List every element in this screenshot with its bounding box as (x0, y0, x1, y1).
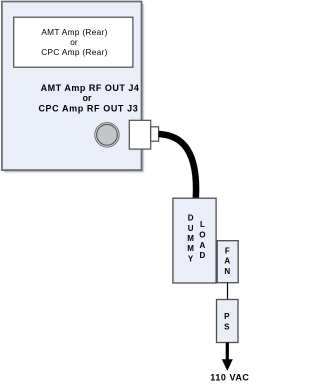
coax cable (159, 134, 196, 199)
svg-text:AMT Amp RF OUT J4: AMT Amp RF OUT J4 (41, 83, 140, 93)
wire fan to ps (227, 283, 229, 300)
amp label box (14, 17, 133, 67)
dummy load box (173, 198, 216, 283)
RF connector plug stub (151, 127, 159, 141)
svg-text:LOAD: LOAD (199, 220, 205, 260)
power arrow (222, 343, 233, 372)
amp chassis box (2, 2, 144, 173)
svg-text:or: or (70, 37, 78, 47)
fan box (217, 241, 238, 283)
svg-text:FAN: FAN (224, 246, 230, 276)
RF connector circle (95, 123, 119, 147)
svg-text:CPC Amp (Rear): CPC Amp (Rear) (41, 47, 107, 57)
svg-text:110 VAC: 110 VAC (210, 372, 249, 382)
RF connector plug body (129, 120, 150, 149)
svg-text:DUMMY: DUMMY (187, 214, 194, 264)
svg-text:CPC Amp RF OUT J3: CPC Amp RF OUT J3 (38, 103, 138, 113)
svg-text:or: or (83, 93, 92, 103)
ps box (217, 300, 239, 343)
svg-text:AMT Amp (Rear): AMT Amp (Rear) (41, 27, 107, 37)
svg-text:PS: PS (224, 312, 230, 331)
